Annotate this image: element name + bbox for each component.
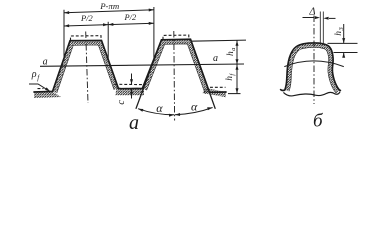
svg-text:а: а [213,53,218,64]
svg-text:P/2: P/2 [80,14,93,23]
leader arrow for rho_f fillet radius [29,84,50,91]
dimension line P/2 (left and right halves) with arrows [64,22,154,27]
delta allowance ticks [320,12,323,45]
label c (rotated) [116,100,127,105]
root line between teeth with hatching [116,87,145,96]
caption b (figure letter) [313,111,324,132]
svg-text:а: а [129,112,139,131]
tooth 2 dashed basic profile (crest) [163,35,189,40]
label a (right, on pitch line) [213,53,218,64]
angle arc alpha (left of tooth2 axis) [138,109,174,117]
svg-text:a: a [230,48,237,51]
tip circle arc across tooth [284,61,344,67]
label a (left, on pitch line) [43,56,48,67]
caption a (figure letter) [129,112,139,134]
tooth 2 allowance hatch band [144,42,207,94]
svg-text:ρ: ρ [31,69,37,80]
label h_3 (rotated) [334,27,345,36]
label P=pi*m [99,1,119,11]
pitch line a-a [40,64,244,66]
wheel rim break line (wavy) [283,92,340,96]
svg-text:P/2: P/2 [124,13,137,22]
delta leader right with arrow [323,17,335,20]
label P/2 left [80,14,93,23]
root reference line (right) [228,93,241,95]
extension line at tooth1 left flank pitch point [63,10,65,61]
root line right of tooth 2 with hatching [202,88,226,97]
angle arc alpha (right of tooth2 axis) [175,107,213,116]
dimension line h_f (pitch to root) [236,64,239,93]
dimension c (radial clearance) with outside arrows [130,74,133,99]
tooth 1 profile [53,40,119,91]
label h_f (rotated) [225,73,236,81]
wheel tooth profile [281,43,341,91]
svg-text:P-πm: P-πm [99,1,119,11]
tooth 2 center line [173,31,176,121]
dimension line P=pi*m with arrows [64,9,154,15]
label alpha right [191,100,198,114]
extension line at tooth1 right flank pitch point [107,22,109,62]
wheel tooth allowance hatch band [287,45,338,93]
tooth 2 profile with flanks extended below root for angle arcs [136,39,215,109]
label rho_f [31,69,40,82]
svg-text:α: α [191,100,198,114]
dimension line h_a (crest to pitch) [236,40,239,64]
tooth 1 center line [86,32,88,104]
tooth 1 dashed basic profile (crest) [71,36,102,41]
svg-text:а: а [43,56,48,67]
dimension line h_3 with outside arrows [342,24,345,58]
label alpha left [156,101,163,115]
svg-text:c: c [116,100,127,105]
flank level reference line (wheel) [334,52,358,54]
svg-text:α: α [156,101,163,115]
dashed clearance line right of tooth 2 [210,86,226,88]
dashed clearance line left of tooth 1 [38,88,44,90]
label Delta [308,6,315,17]
tooth 1 allowance hatch band [55,43,116,93]
crest reference line (right) [191,40,247,41]
svg-text:б: б [313,111,324,132]
crest level reference line (wheel) [328,42,358,44]
wheel tooth center line [313,16,315,105]
delta leader left with arrow [303,16,321,19]
dashed clearance line in gap between teeth [115,83,144,85]
root line left of tooth 1 with hatching [34,92,61,99]
label h_a (rotated) [226,48,237,56]
svg-text:Δ: Δ [308,6,315,17]
extension line at tooth2 left flank pitch point [153,7,155,60]
label P/2 right [124,13,137,22]
